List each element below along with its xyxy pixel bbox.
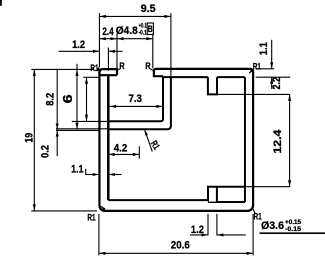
profile outline: left edge, bottom edge, right edge, top flange edge (99, 69, 253, 211)
svg-text:R: R (119, 60, 124, 71)
leader underline phi3.6 (260, 232, 325, 234)
dim line 19 (33, 69, 35, 211)
arrow 1.1bl right (108, 173, 115, 176)
leader R1 bottom-right (252, 207, 255, 214)
dim line 8.2 outer column (76, 64, 78, 129)
svg-text:R1: R1 (253, 60, 261, 71)
svg-text:-0.15: -0.15 (285, 226, 302, 233)
svg-text:1.2: 1.2 (191, 224, 204, 236)
shelf extension line (245, 186, 290, 188)
extension line y128.8 left (56, 128, 108, 130)
svg-text:19: 19 (24, 133, 36, 143)
arrow 0.2 down (56, 124, 59, 130)
dim line 9.5 (99, 15, 170, 17)
leader R1 top-left (98, 68, 101, 71)
svg-text:R1: R1 (90, 62, 98, 73)
arrow 20.6 left (99, 252, 106, 255)
arrow 19 bottom (33, 204, 36, 211)
dim line 4.2 (108, 153, 139, 155)
leader R1 top-right (249, 69, 254, 74)
extension line y77.15 right (256, 76, 291, 78)
svg-text:20.6: 20.6 (171, 240, 190, 252)
cap base line (98, 74, 117, 76)
extension line y210.9 left (31, 210, 97, 212)
arrow 4.2 right (133, 153, 140, 156)
dim line 1.2 right segment (108, 50, 122, 52)
leader R1 pocket corner (145, 130, 153, 151)
arrow 20.6 right (247, 252, 254, 255)
extension line x98.9 bottom (98, 214, 100, 255)
svg-text:4.2: 4.2 (114, 142, 128, 154)
dim 1.1 bottom-left hook (86, 169, 100, 175)
svg-text:R1: R1 (87, 212, 95, 223)
dim line 1.2 left segment (59, 50, 100, 52)
arrow 8.2 top (75, 69, 78, 76)
flange underside right segment (217, 76, 245, 78)
dim line 7.3 (110, 105, 163, 107)
svg-text:1.1: 1.1 (71, 164, 83, 176)
arrow 1.2 right (108, 50, 115, 53)
svg-text:-0.1: -0.1 (139, 29, 148, 36)
inner tube right outer face and outer bottom (108, 77, 171, 129)
arrow 4.8 left (117, 37, 124, 40)
dim line 2.4 / 4.8 (99, 38, 152, 40)
leader R1 bottom-left (101, 206, 105, 210)
arrow 1.2b right (217, 233, 224, 236)
arrow 1.2 left (93, 50, 100, 53)
extension line x108.4 (107, 48, 109, 71)
svg-text:7.3: 7.3 (128, 93, 142, 105)
svg-text:8.2: 8.2 (45, 93, 57, 106)
chamber floor (217, 201, 245, 203)
dim 1.2 bottom left segment (190, 234, 208, 236)
svg-text:Ø4.8: Ø4.8 (116, 25, 138, 37)
arrow 2.4 left (99, 37, 106, 40)
extension line x152.6 (152, 34, 154, 69)
arrow 4.8 right (146, 37, 153, 40)
svg-text:2.2: 2.2 (271, 77, 283, 90)
arrow 1.1bl left (93, 173, 100, 176)
arrow 1.2b left (202, 233, 209, 236)
arrow 7.3 right (156, 105, 163, 108)
arrow 9.5 left (99, 15, 106, 18)
extension line y121.4 left (72, 120, 107, 122)
svg-text:9.5: 9.5 (141, 3, 156, 15)
svg-text:Ø3.6: Ø3.6 (261, 220, 284, 232)
dim 1.1/2.2 lower tail (271, 77, 273, 89)
svg-text:0.2: 0.2 (39, 145, 51, 158)
extension line y77.3 left (83, 76, 99, 78)
top boss hanging block (207, 77, 218, 94)
arrow 12.4 top (288, 94, 291, 101)
datum box B (147, 23, 153, 35)
bottom boss shelf (207, 186, 245, 188)
dim 1.1 top-right upper tail (271, 40, 273, 69)
arrow 12.4 bottom (288, 180, 291, 187)
extension line x216.9 bottom (216, 214, 218, 236)
bottom boss wall A (207, 187, 209, 202)
svg-text:6: 6 (61, 94, 75, 103)
dim column x57.2 (8.2 text side / 0.2 tails) (56, 69, 58, 157)
slot left inner face (107, 75, 110, 200)
arrow 1.1tr down (270, 62, 273, 68)
arrow 1.1tr up (270, 77, 273, 84)
svg-text:12.4: 12.4 (272, 130, 284, 154)
bottom boss wall B (216, 187, 218, 202)
pocket right face and inner bottom (108, 76, 163, 121)
dim 1.1 bottom-left right segment (108, 174, 121, 176)
arrow 19 top (33, 69, 36, 76)
arrow 0.2 up (56, 131, 59, 137)
leader R flange tip (150, 69, 153, 71)
right wall inner face (244, 77, 246, 202)
arrow 8.2 bottom (75, 123, 78, 130)
dim 1.2 bottom right segment (217, 234, 246, 236)
extension line y69.4 left (31, 68, 94, 70)
extension line x208 bottom (207, 214, 209, 236)
svg-text:1.1: 1.1 (258, 42, 270, 55)
arrow 7.3 left (110, 105, 117, 108)
arrow 2.4 right (111, 37, 118, 40)
extension line x139.3 (138, 146, 140, 158)
dim line 20.6 (99, 252, 253, 254)
leader arrowhead (144, 129, 148, 136)
cap tab top-left (99, 69, 117, 75)
extension line y130.4 left (56, 129, 100, 131)
arrow 9.5 right (164, 15, 171, 18)
extension line y68.8 right (256, 68, 275, 70)
svg-text:1.2: 1.2 (72, 39, 85, 51)
flange underside left segment (163, 76, 208, 78)
arrow 6 bottom (85, 115, 88, 122)
tube floor (108, 199, 209, 201)
top boss bottom extension line (218, 93, 290, 95)
svg-text:B: B (148, 24, 153, 34)
arrow 4.2 left (108, 153, 115, 156)
arrow 6 top (85, 77, 88, 84)
extension line x253.1 bottom (252, 214, 254, 255)
extension line x99.45 top (98, 13, 100, 67)
leader R cap corner (117, 69, 120, 71)
extension line x170.9 top (170, 13, 172, 76)
boss slot bottom (208, 201, 217, 203)
svg-text:2.4: 2.4 (102, 26, 113, 38)
dim line 6 (86, 77, 88, 121)
flange tip ledge (153, 75, 163, 77)
border artifact top-left (0, 0, 2, 6)
svg-text:R: R (145, 60, 150, 71)
extension line x117 (116, 34, 118, 69)
dim line 12.4 (289, 94, 291, 186)
